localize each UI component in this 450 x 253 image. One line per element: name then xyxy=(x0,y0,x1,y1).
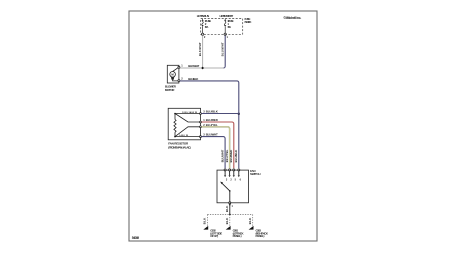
ground G200 xyxy=(226,226,231,230)
svg-text:1: 1 xyxy=(227,35,229,39)
blower resistor R1 xyxy=(168,108,201,140)
svg-text:PANEL): PANEL) xyxy=(233,234,242,238)
middle ground drop BLK xyxy=(229,215,231,228)
svg-text:HOT IN START: HOT IN START xyxy=(220,14,234,18)
svg-text:OF I/P): OF I/P) xyxy=(210,234,218,238)
svg-text:SWITCH: SWITCH xyxy=(250,172,261,176)
svg-text:2: 2 xyxy=(181,76,183,80)
svg-text:5: 5 xyxy=(235,178,237,181)
switch lever arrowhead xyxy=(220,182,223,185)
svg-text:3: 3 xyxy=(226,178,228,181)
fuse F1 xyxy=(224,19,226,36)
svg-text:1: 1 xyxy=(181,63,183,67)
svg-text:BLU/RED: BLU/RED xyxy=(229,150,233,163)
wire horizontal to blower motor pin 1 xyxy=(180,67,224,69)
resistor pin 2 wire BLU/YEL xyxy=(201,127,229,169)
svg-text:BLK: BLK xyxy=(225,206,229,213)
splice junction S1 xyxy=(201,67,204,70)
svg-text:BLU/YEL: BLU/YEL xyxy=(206,123,218,127)
svg-text:M: M xyxy=(171,73,174,77)
svg-text:BLU/BLK: BLU/BLK xyxy=(206,110,219,114)
svg-text:15A: 15A xyxy=(205,25,210,29)
wire BLU/BLK from motor pin 2 xyxy=(180,81,239,168)
svg-text:15A: 15A xyxy=(227,25,232,29)
svg-text:BLU/WHT: BLU/WHT xyxy=(220,149,224,162)
resistor pin 3 wire BLU/BLK xyxy=(201,113,238,115)
svg-text:BLU/WHT: BLU/WHT xyxy=(206,133,218,137)
resistor pin 1 wire BLU/RED xyxy=(201,122,233,168)
wire BLU/WHT from fuse 1 down xyxy=(223,36,225,69)
svg-text:2: 2 xyxy=(204,35,206,39)
border frame xyxy=(129,11,317,241)
svg-text:1400 W: 1400 W xyxy=(179,134,189,137)
blower motor M1 xyxy=(167,65,180,83)
svg-text:BLU/BLK: BLU/BLK xyxy=(188,77,199,81)
left ground drop BLK xyxy=(206,215,208,228)
svg-text:©Mitchell inc.: ©Mitchell inc. xyxy=(283,16,301,20)
svg-text:BLK/WHT: BLK/WHT xyxy=(198,42,202,56)
svg-text:BLU/BLK: BLU/BLK xyxy=(234,150,238,163)
junction J2 on blue wire xyxy=(238,113,240,115)
svg-text:BLK: BLK xyxy=(248,218,252,225)
svg-text:2: 2 xyxy=(230,178,232,181)
svg-text:54069: 54069 xyxy=(132,236,140,240)
svg-text:PANEL): PANEL) xyxy=(256,234,265,238)
svg-text:BLK: BLK xyxy=(203,218,207,225)
wire BLK/WHT from fuse 2 down xyxy=(202,36,204,69)
svg-text:BLK/WHT: BLK/WHT xyxy=(188,64,199,68)
ground tee dashed wire xyxy=(207,214,252,216)
svg-text:1: 1 xyxy=(232,205,234,208)
svg-text:BLK: BLK xyxy=(225,218,229,225)
svg-text:(FRONT/MANUAL A/C): (FRONT/MANUAL A/C) xyxy=(168,145,191,149)
svg-text:6: 6 xyxy=(240,178,242,181)
svg-text:BLOCK: BLOCK xyxy=(245,20,253,24)
svg-text:1200-1400 W: 1200-1400 W xyxy=(182,111,198,114)
svg-text:BLU/RED: BLU/RED xyxy=(206,118,218,122)
svg-text:BLU/WHT: BLU/WHT xyxy=(221,42,225,56)
wire BLK from switch to ground tee xyxy=(229,204,231,215)
resistor pin 4 wire BLU/WHT xyxy=(201,137,225,169)
svg-text:HOT IN RUN: HOT IN RUN xyxy=(197,14,210,18)
svg-text:MOTOR: MOTOR xyxy=(165,88,175,92)
switch bottom pin arrow xyxy=(229,204,231,206)
ground G202 xyxy=(203,226,208,230)
right ground drop BLK xyxy=(252,215,254,228)
fuse block dashed box xyxy=(201,19,243,35)
fan switch SW1 xyxy=(217,169,249,204)
ground G303 xyxy=(249,226,254,230)
fuse F2 xyxy=(201,19,203,36)
